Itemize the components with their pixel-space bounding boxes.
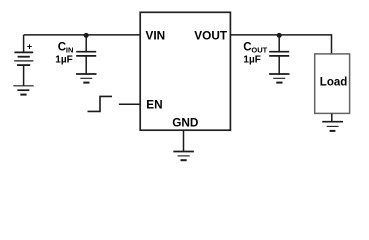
ground (battery) [13, 86, 33, 95]
svg-text:+: + [27, 42, 32, 52]
wire: CIN top lead [85, 35, 87, 51]
wire: input rail from battery to VIN [24, 34, 141, 36]
battery V1 [14, 52, 33, 65]
svg-text:GND: GND [172, 115, 199, 129]
capacitor CIN [76, 52, 96, 56]
wire: COUT bottom lead [278, 56, 280, 74]
svg-text:VOUT: VOUT [194, 29, 228, 43]
wire: battery bottom lead [23, 65, 25, 86]
svg-text:1µF: 1µF [243, 55, 260, 66]
wire: EN lead [119, 103, 140, 105]
wire: battery top lead [23, 35, 25, 53]
wire: CIN bottom lead [85, 56, 87, 74]
ground (load) [322, 122, 343, 131]
op-amp / regulator U1 box [140, 12, 230, 130]
node: junction dot at CIN [84, 33, 89, 38]
ground (CIN) [76, 74, 96, 83]
svg-text:OUT: OUT [251, 46, 267, 55]
wire: COUT top lead [278, 35, 280, 51]
ground (GND pin) [173, 152, 194, 161]
svg-text:EN: EN [146, 97, 162, 111]
wire: load bottom lead [331, 113, 333, 121]
wire: GND pin lead [183, 130, 185, 151]
svg-text:IN: IN [66, 46, 74, 55]
svg-text:C: C [58, 42, 66, 54]
step input signal on EN [88, 96, 113, 111]
svg-text:Load: Load [320, 77, 347, 89]
load resistor box [315, 54, 350, 114]
capacitor COUT [269, 52, 289, 56]
svg-text:C: C [243, 42, 251, 54]
wire: output rail from VOUT to load [230, 35, 331, 54]
svg-text:VIN: VIN [146, 29, 166, 43]
ground (COUT) [269, 74, 289, 83]
node: junction dot at COUT [277, 33, 282, 38]
svg-text:1µF: 1µF [55, 55, 72, 66]
